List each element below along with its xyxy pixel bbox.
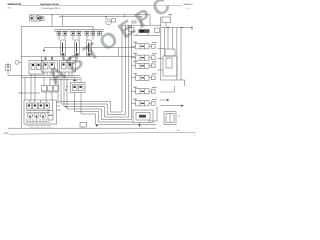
svg-text:ABTOEPC: ABTOEPC [43, 0, 179, 89]
svg-text:4WD: 4WD [4, 132, 9, 135]
svg-text:x 1: x 1 [187, 7, 191, 10]
svg-text:T1: T1 [178, 115, 181, 118]
svg-text:2/2: 2/2 [177, 129, 181, 132]
svg-text:W-1: W-1 [8, 7, 13, 10]
svg-text:1: 1 [194, 134, 196, 137]
svg-text:Sailboat-W: Sailboat-W [8, 3, 22, 6]
svg-text:Hydraulic circuit: Hydraulic circuit [40, 3, 59, 6]
svg-text:3.Swing motor 4.Travel motor: 3.Swing motor 4.Travel motor [30, 126, 53, 129]
svg-text:SailBoat-1: SailBoat-1 [183, 3, 194, 6]
svg-text:Circuit layout (W-1): Circuit layout (W-1) [42, 7, 61, 10]
